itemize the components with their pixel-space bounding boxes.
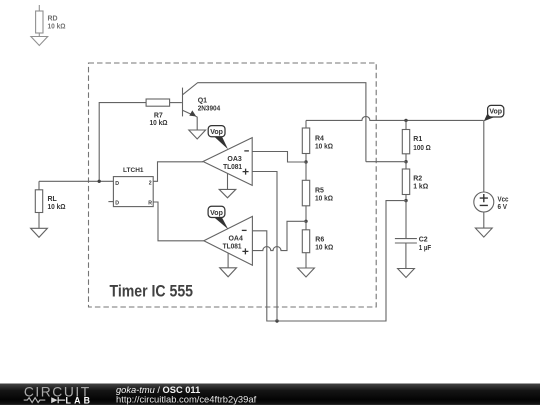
wire R4 top stub <box>305 120 307 128</box>
svg-text:2N3904: 2N3904 <box>198 106 221 113</box>
svg-text:TL081: TL081 <box>223 243 242 250</box>
wire R1 bottom <box>405 154 407 162</box>
wire OA3 power stub to ground <box>227 174 229 190</box>
wire RL bottom <box>38 213 40 229</box>
wire OA4 output to LTCH1 pinR <box>153 202 204 241</box>
svg-text:1 µF: 1 µF <box>419 245 432 252</box>
svg-text:10 kΩ: 10 kΩ <box>315 195 333 202</box>
svg-text:Vop: Vop <box>210 129 223 136</box>
svg-text:Vop: Vop <box>210 210 223 217</box>
node R5/R6 <box>304 220 307 223</box>
wire R6 bottom <box>305 253 307 268</box>
wire OA4 plus input with hops to R5/R6 node <box>252 221 306 250</box>
svg-text:LAB: LAB <box>66 396 94 405</box>
svg-text:R2: R2 <box>413 175 422 182</box>
voltage source Vcc <box>474 192 494 212</box>
wire R7 to Q1 base <box>170 102 182 104</box>
resistor R7 <box>146 99 170 106</box>
svg-text:10 kΩ: 10 kΩ <box>315 143 333 150</box>
node R4/R5 <box>304 160 307 163</box>
resistor R5 <box>302 180 309 206</box>
op-amp OA4 <box>204 216 253 265</box>
capacitor C2 <box>395 238 417 240</box>
wire C2 bottom <box>405 243 407 269</box>
svg-text:LTCH1: LTCH1 <box>123 167 144 174</box>
latch LTCH1 <box>108 167 153 206</box>
ground (R6) <box>298 268 315 277</box>
node R1 top <box>404 119 407 122</box>
wire R2 top stub <box>405 162 407 169</box>
ground (RL) <box>31 228 48 237</box>
transistor Q1 <box>183 83 221 117</box>
svg-text:TL081: TL081 <box>223 164 242 171</box>
logo zigzag resistor <box>24 398 46 403</box>
resistor R4 <box>302 128 309 154</box>
wire R2 bottom <box>405 195 407 201</box>
resistor RL <box>35 190 42 213</box>
wire R2 bottom to triangle net <box>252 201 406 321</box>
ground (Vcc) <box>475 228 492 237</box>
wire OA3 output to LTCH1 pin2 <box>153 162 203 182</box>
op-amp OA3 <box>203 138 252 186</box>
wire OA4 power stub to ground <box>227 253 229 268</box>
wire Q1 collector top rail <box>197 83 366 162</box>
svg-text:R1: R1 <box>413 136 422 143</box>
svg-text:R6: R6 <box>315 236 324 243</box>
svg-text:6 V: 6 V <box>498 204 508 211</box>
svg-text:D: D <box>115 181 119 187</box>
wire R4 bottom <box>305 154 307 163</box>
svg-text:C2: C2 <box>419 236 428 243</box>
svg-text:10 kΩ: 10 kΩ <box>150 120 168 127</box>
wire R1 top stub <box>405 120 407 129</box>
svg-text:Vop: Vop <box>489 109 502 116</box>
svg-text:Vcc: Vcc <box>498 196 509 203</box>
svg-text:R7: R7 <box>154 112 163 119</box>
wire C2 top <box>405 201 407 239</box>
svg-text:Q1: Q1 <box>198 98 207 105</box>
wire Vop rail y=120.4 with hop over collector drop <box>306 116 484 120</box>
wire R5 bottom <box>305 206 307 222</box>
wire Vcc bottom <box>483 212 485 228</box>
ground (Q1 emitter) <box>189 130 206 139</box>
wire R6 top stub <box>305 221 307 230</box>
svg-text:R: R <box>148 200 152 206</box>
svg-text:Timer IC 555: Timer IC 555 <box>110 281 194 300</box>
svg-text:D: D <box>115 201 119 207</box>
svg-text:10 kΩ: 10 kΩ <box>48 204 66 211</box>
wire Vcc top <box>483 120 485 192</box>
wire RL to LTCH1 D <box>39 180 113 182</box>
svg-text:R4: R4 <box>315 135 324 142</box>
ground (OA3) <box>219 189 236 197</box>
svg-text:R5: R5 <box>315 187 324 194</box>
wire OA3 minus input to R4/R5 node <box>252 152 306 163</box>
svg-text:http://circuitlab.com/ce4ftrb2: http://circuitlab.com/ce4ftrb2y39af <box>116 393 257 404</box>
svg-text:RD: RD <box>48 16 58 23</box>
wire R5 top stub <box>305 162 307 180</box>
node label Vop (top right) <box>484 105 504 121</box>
dashed boundary box <box>89 63 377 307</box>
node triangle net junction <box>275 319 278 322</box>
logo diode <box>51 397 57 403</box>
node label Vop (OA3) <box>208 126 228 150</box>
svg-text:2: 2 <box>149 180 152 186</box>
wire collector to R1 bottom <box>366 161 406 163</box>
wire Q1 emitter to ground <box>196 117 198 130</box>
svg-text:1 kΩ: 1 kΩ <box>413 184 428 191</box>
node R2 bottom <box>404 199 407 202</box>
wire R7 left leg <box>99 103 146 182</box>
svg-text:OA4: OA4 <box>228 235 243 242</box>
svg-text:OA3: OA3 <box>227 156 242 163</box>
node label Vop (OA4) <box>208 206 228 229</box>
svg-text:100 Ω: 100 Ω <box>413 145 431 152</box>
svg-text:10 kΩ: 10 kΩ <box>48 24 66 31</box>
resistor R2 <box>402 169 409 195</box>
node LTCH input <box>98 180 101 183</box>
ghost resistor RD (erased element, faint) <box>31 5 66 46</box>
svg-text:10 kΩ: 10 kΩ <box>315 245 333 252</box>
resistor R1 <box>402 130 409 154</box>
resistor R6 <box>302 230 309 253</box>
node R1 bottom <box>404 160 407 163</box>
wire OA3 plus input down <box>252 172 277 322</box>
wire RL top stub <box>38 181 40 190</box>
ground (C2) <box>398 269 415 278</box>
ground (OA4) <box>220 268 237 277</box>
svg-text:RL: RL <box>48 196 58 203</box>
